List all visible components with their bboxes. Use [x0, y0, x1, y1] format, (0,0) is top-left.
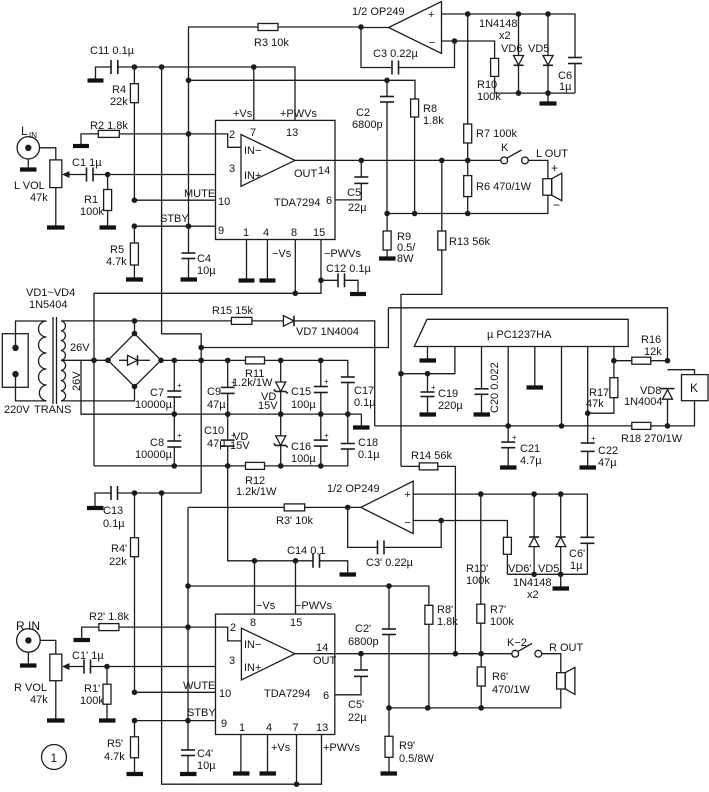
svg-text:1µ: 1µ — [559, 81, 572, 93]
svg-text:1.2k/1W: 1.2k/1W — [232, 377, 273, 389]
capacitor C1 — [72, 157, 102, 182]
svg-text:C20 0.022: C20 0.022 — [489, 362, 501, 413]
IC U1 TDA7294 box — [216, 120, 336, 239]
capacitor C2 — [352, 78, 394, 214]
resistor R1 — [80, 175, 116, 228]
node R3/opamp output — [358, 24, 364, 30]
svg-text:4: 4 — [266, 722, 272, 734]
wire STBY — [132, 213, 216, 229]
speaker R — [557, 667, 575, 694]
resistor R9 — [379, 214, 416, 266]
wire pin7' +Vs — [294, 735, 361, 788]
svg-text:6: 6 — [323, 690, 329, 702]
wire WUTE — [132, 680, 216, 695]
wire + input rail bottom — [413, 491, 587, 537]
svg-text:100k: 100k — [466, 575, 490, 587]
svg-text:0.1µ: 0.1µ — [358, 449, 380, 461]
wire opamp output — [361, 27, 389, 29]
wire +V rail riser x161 — [162, 67, 204, 493]
wire diode bottom rail — [495, 90, 575, 96]
wire switch to speaker R — [542, 642, 584, 673]
zener VD upper 15V — [258, 360, 288, 414]
ground uPC pin A — [420, 347, 437, 361]
svg-text:8W: 8W — [397, 253, 414, 265]
svg-text:C6': C6' — [569, 548, 585, 560]
svg-text:10000µ: 10000µ — [135, 449, 173, 461]
capacitor C13 — [103, 486, 125, 530]
svg-text:STBY: STBY — [187, 707, 216, 719]
svg-text:1/2 OP249: 1/2 OP249 — [352, 6, 405, 18]
ground C13 — [87, 493, 111, 508]
resistor R7' — [477, 494, 515, 654]
capacitor C7 — [135, 360, 182, 414]
IC U3 uPC1237HA — [414, 319, 628, 346]
resistor R5' — [104, 721, 143, 774]
svg-text:L OUT: L OUT — [536, 148, 568, 160]
ground diode rail — [540, 93, 557, 103]
IC U4 TDA7294' box — [216, 614, 337, 734]
wire pin13' +PWVs — [297, 735, 322, 785]
capacitor C16 — [291, 414, 329, 466]
capacitor C2' — [348, 586, 396, 708]
resistor R18 — [621, 401, 695, 445]
node +Vs pin7 — [233, 64, 317, 120]
svg-text:µ PC1237HA: µ PC1237HA — [487, 329, 552, 341]
svg-text:−: − — [429, 37, 435, 49]
svg-text:6800p: 6800p — [348, 636, 379, 648]
svg-text:1: 1 — [243, 227, 249, 239]
svg-text:22k: 22k — [109, 556, 127, 568]
svg-text:R16: R16 — [641, 334, 661, 346]
capacitor C8 — [135, 414, 182, 466]
svg-text:R10': R10' — [466, 563, 488, 575]
svg-text:C21: C21 — [520, 443, 540, 455]
svg-text:C1 1µ: C1 1µ — [72, 157, 102, 169]
svg-text:R14 56k: R14 56k — [411, 450, 452, 462]
bridge rectifier VD1-VD4 — [108, 331, 164, 390]
ground R2' — [74, 627, 99, 640]
svg-text:C16: C16 — [291, 441, 311, 453]
wire pin8 -Vs — [293, 240, 362, 297]
svg-text:7: 7 — [293, 722, 299, 734]
wire pin15 — [295, 240, 324, 294]
capacitor C5' — [335, 654, 368, 724]
svg-text:IN+: IN+ — [244, 662, 261, 674]
svg-text:10µ: 10µ — [197, 760, 216, 772]
svg-text:R13 56k: R13 56k — [449, 236, 490, 248]
svg-text:8: 8 — [291, 227, 297, 239]
svg-text:R6 470/1W: R6 470/1W — [476, 181, 532, 193]
ground C11 — [88, 67, 111, 81]
svg-text:C4': C4' — [197, 748, 213, 760]
svg-text:+Vs: +Vs — [233, 108, 253, 120]
op-amp U2 1/2 OP249 — [352, 2, 442, 54]
wire pinB sense — [398, 347, 455, 377]
svg-text:10: 10 — [218, 196, 230, 208]
ground R IN — [20, 652, 37, 665]
svg-text:7: 7 — [250, 127, 256, 139]
svg-text:TDA7294: TDA7294 — [264, 688, 310, 700]
wire rail x188 — [188, 80, 190, 226]
wire jack to pot — [40, 640, 56, 654]
capacitor C18 — [341, 414, 380, 461]
wire R2' to pin2 — [119, 624, 216, 630]
svg-text:100k: 100k — [80, 206, 104, 218]
op-amp U5 1/2 OP249 — [327, 481, 413, 533]
svg-text:9: 9 — [218, 225, 224, 237]
svg-text:+: + — [428, 9, 434, 21]
svg-text:R2' 1.8k: R2' 1.8k — [89, 611, 130, 623]
resistor R6' — [477, 654, 530, 708]
relay K box — [668, 370, 709, 401]
switch K-2 — [507, 637, 542, 657]
svg-text:VD7 1N4004: VD7 1N4004 — [296, 326, 359, 338]
svg-text:IN+: IN+ — [244, 170, 261, 182]
svg-text:4.7k: 4.7k — [106, 256, 127, 268]
capacitor C5 — [335, 160, 368, 214]
resistor R3' — [276, 504, 361, 527]
svg-text:STBY: STBY — [160, 213, 189, 225]
svg-text:+PWVs: +PWVs — [323, 742, 360, 754]
svg-text:K−2: K−2 — [507, 637, 527, 649]
resistor R7 — [464, 14, 518, 160]
svg-text:4: 4 — [263, 227, 269, 239]
svg-text:15: 15 — [290, 617, 302, 629]
svg-text:−: − — [553, 198, 560, 212]
diode VD7 — [252, 316, 375, 426]
svg-text:10000µ: 10000µ — [135, 399, 173, 411]
svg-text:−PWVs: −PWVs — [295, 600, 332, 612]
wire 0V mid rail — [81, 411, 351, 417]
svg-text:+: + — [324, 431, 329, 440]
svg-text:−PWVs: −PWVs — [324, 248, 361, 260]
svg-text:R4: R4 — [112, 84, 126, 96]
svg-text:4.7µ: 4.7µ — [520, 455, 542, 467]
wire -Vs rail to x94 — [94, 293, 295, 466]
svg-text:x2: x2 — [499, 30, 511, 42]
wire -V rail — [94, 449, 348, 469]
wire STBY' — [132, 707, 217, 723]
svg-text:−: − — [405, 517, 411, 529]
resistor R16 — [614, 334, 670, 364]
svg-text:4.7k: 4.7k — [104, 751, 125, 763]
svg-text:13: 13 — [316, 722, 328, 734]
svg-text:VD1~VD4: VD1~VD4 — [26, 287, 75, 299]
svg-text:15: 15 — [313, 227, 325, 239]
svg-text:220V: 220V — [4, 404, 30, 416]
wire pin8' -Vs — [252, 558, 276, 614]
svg-text:15V: 15V — [230, 440, 250, 452]
capacitor C15 — [291, 360, 329, 414]
wiper arrow R — [62, 663, 84, 670]
svg-text:1µ: 1µ — [570, 560, 583, 572]
resistor R5 — [106, 226, 143, 279]
svg-text:1N5404: 1N5404 — [29, 299, 68, 311]
svg-text:47k: 47k — [586, 398, 604, 410]
svg-text:OUT: OUT — [313, 655, 337, 667]
svg-text:8: 8 — [250, 617, 256, 629]
capacitor C3 — [361, 28, 455, 75]
ground R2 — [73, 134, 98, 146]
svg-text:K: K — [501, 142, 509, 154]
svg-text:R10: R10 — [477, 79, 497, 91]
svg-text:100µ: 100µ — [291, 399, 316, 411]
capacitor C9 — [207, 360, 236, 414]
wire - input bottom — [413, 518, 507, 538]
svg-text:R5': R5' — [107, 738, 123, 750]
wire MUTE — [132, 188, 216, 203]
svg-text:14: 14 — [316, 642, 328, 654]
svg-text:100k: 100k — [490, 616, 514, 628]
wire diode bottom rail R — [507, 572, 587, 578]
wire y80 node line — [186, 78, 415, 100]
svg-text:10µ: 10µ — [197, 265, 216, 277]
svg-text:1N4004: 1N4004 — [624, 396, 663, 408]
speaker L — [543, 161, 562, 212]
svg-text:IN−: IN− — [244, 145, 261, 157]
capacitor C22 — [580, 347, 619, 470]
svg-text:+Vs: +Vs — [271, 742, 291, 754]
svg-text:C4: C4 — [197, 253, 211, 265]
resistor R17 — [586, 347, 618, 414]
wire secondary bottom tap — [61, 387, 135, 401]
capacitor C17 — [341, 377, 376, 414]
wire relay rail — [375, 425, 632, 427]
resistor R3 — [254, 24, 289, 50]
svg-text:15V: 15V — [258, 400, 278, 412]
svg-text:x2: x2 — [527, 589, 539, 601]
capacitor C3' — [348, 507, 442, 569]
capacitor C20 — [474, 347, 502, 415]
svg-text:C5: C5 — [347, 187, 361, 199]
svg-text:L: L — [21, 124, 28, 138]
node rail top — [159, 64, 165, 70]
wire R13 R14 node — [401, 465, 419, 467]
svg-text:R1': R1' — [84, 683, 100, 695]
svg-text:C1' 1µ: C1' 1µ — [72, 650, 104, 662]
svg-text:L VOL: L VOL — [14, 180, 45, 192]
ground pin4' — [260, 735, 291, 774]
svg-text:26V: 26V — [70, 342, 90, 354]
svg-text:C5': C5' — [348, 699, 364, 711]
svg-text:+: + — [177, 381, 182, 390]
diode VD6' — [508, 494, 539, 575]
wire supply to outer loop — [201, 308, 388, 348]
svg-text:R3 10k: R3 10k — [254, 37, 289, 49]
wire center tap to 0V — [81, 360, 174, 414]
capacitor C11 — [90, 45, 135, 74]
svg-text:3: 3 — [229, 163, 235, 175]
svg-text:C8: C8 — [150, 437, 164, 449]
wire OUT line — [335, 158, 501, 164]
wire +V rail — [161, 358, 348, 377]
svg-text:R VOL: R VOL — [14, 682, 47, 694]
svg-text:R IN: R IN — [16, 619, 40, 633]
svg-text:C11 0.1µ: C11 0.1µ — [90, 45, 135, 57]
zener VD lower 15V — [230, 414, 288, 466]
wire switch to speaker — [528, 148, 568, 179]
wire R3' left leg — [185, 507, 191, 720]
svg-text:0.1µ: 0.1µ — [103, 518, 125, 530]
svg-text:VD5: VD5 — [528, 43, 549, 55]
resistor R6 — [464, 160, 532, 213]
wire speaker bottom rail R — [386, 689, 561, 711]
svg-text:6: 6 — [326, 195, 332, 207]
wire jack to pot — [40, 148, 56, 160]
capacitor C19 — [420, 374, 464, 415]
ground pin1' — [233, 735, 250, 774]
resistor R11 — [232, 357, 273, 389]
svg-text:47k: 47k — [30, 694, 48, 706]
diode VD8 — [624, 385, 675, 428]
resistor R2 — [90, 120, 128, 137]
svg-text:−Vs: −Vs — [272, 248, 292, 260]
page marker 1 — [42, 745, 67, 770]
wire + input rail — [442, 11, 576, 57]
svg-text:R6': R6' — [492, 671, 508, 683]
wire OUT' line — [335, 651, 512, 657]
svg-text:+: + — [551, 161, 558, 175]
wiper arrow — [62, 171, 87, 178]
svg-text:C17: C17 — [354, 385, 374, 397]
svg-text:22k: 22k — [110, 96, 128, 108]
wire R3 feedback line — [189, 27, 362, 80]
svg-text:1.8k: 1.8k — [437, 616, 458, 628]
svg-text:R7': R7' — [490, 604, 506, 616]
wire R3' line — [188, 506, 284, 508]
svg-text:+: + — [177, 431, 182, 440]
svg-text:2: 2 — [230, 622, 236, 634]
svg-text:C18: C18 — [358, 437, 378, 449]
svg-text:R2 1.8k: R2 1.8k — [90, 120, 128, 132]
svg-text:+: + — [512, 433, 517, 442]
node R4 top — [132, 64, 138, 70]
svg-text:47k: 47k — [30, 192, 48, 204]
transformer TRANS — [16, 287, 91, 416]
svg-text:1/2 OP249: 1/2 OP249 — [327, 483, 380, 495]
svg-text:220µ: 220µ — [438, 400, 463, 412]
resistor R14 — [411, 450, 455, 654]
wire pinF to relay rail — [559, 347, 565, 429]
resistor R4' — [109, 493, 139, 692]
svg-text:1: 1 — [239, 722, 245, 734]
capacitor C21 — [500, 347, 542, 468]
potentiometer R VOL — [14, 654, 65, 720]
capacitor C10 — [204, 414, 236, 466]
ground L IN — [20, 159, 37, 170]
svg-text:47µ: 47µ — [598, 457, 617, 469]
resistor R8' — [425, 604, 458, 708]
svg-text:1N4148: 1N4148 — [513, 577, 552, 589]
wire y586 node line — [188, 583, 429, 605]
wire C13 node line — [118, 490, 202, 496]
svg-text:C15: C15 — [291, 386, 311, 398]
svg-text:C14 0.1: C14 0.1 — [287, 545, 326, 557]
svg-text:R8': R8' — [437, 604, 453, 616]
svg-text:K: K — [690, 381, 698, 395]
resistor R2' — [89, 611, 130, 631]
svg-text:470/1W: 470/1W — [492, 684, 531, 696]
svg-text:22µ: 22µ — [348, 202, 367, 214]
svg-text:2: 2 — [229, 129, 235, 141]
wire secondary mid tap — [61, 358, 111, 364]
wire outer supply loop — [388, 308, 667, 361]
svg-text:1N4148: 1N4148 — [479, 18, 518, 30]
svg-text:+: + — [591, 434, 596, 443]
svg-text:0.5/8W: 0.5/8W — [399, 753, 434, 765]
svg-text:R7 100k: R7 100k — [476, 128, 517, 140]
ground pin4 — [260, 240, 292, 281]
plug 220V — [2, 334, 30, 416]
wire C1 to pin3 — [93, 172, 216, 178]
svg-text:+: + — [231, 378, 236, 387]
svg-text:C2: C2 — [356, 107, 370, 119]
svg-text:1.8k: 1.8k — [423, 115, 444, 127]
wire R2 to pin2 — [119, 131, 215, 137]
svg-text:+: + — [405, 489, 411, 501]
svg-text:C9: C9 — [207, 386, 221, 398]
diode VD5' — [513, 494, 566, 601]
svg-text:9: 9 — [221, 718, 227, 730]
svg-text:R18 270/1W: R18 270/1W — [621, 433, 683, 445]
svg-text:R1: R1 — [84, 194, 98, 206]
svg-text:R OUT: R OUT — [549, 642, 584, 654]
svg-text:+PWVs: +PWVs — [280, 108, 317, 120]
svg-text:C13: C13 — [103, 505, 123, 517]
resistor R12 — [236, 462, 277, 498]
svg-text:R5: R5 — [110, 244, 124, 256]
svg-text:IN−: IN− — [244, 639, 261, 651]
svg-text:VD6': VD6' — [508, 563, 532, 575]
switch K — [501, 142, 529, 164]
svg-text:C22: C22 — [598, 445, 618, 457]
svg-text:1.2k/1W: 1.2k/1W — [236, 486, 277, 498]
ground 0V rail — [348, 414, 370, 427]
svg-text:100µ: 100µ — [291, 453, 316, 465]
svg-text:−Vs: −Vs — [256, 600, 276, 612]
ground diode rail R — [553, 574, 570, 588]
capacitor C6' — [569, 537, 594, 574]
capacitor C1' — [72, 650, 104, 674]
svg-text:+: + — [431, 383, 436, 392]
svg-text:VD5': VD5' — [538, 563, 562, 575]
resistor R15 — [135, 305, 254, 324]
jack R IN — [16, 619, 40, 652]
diode VD5 — [479, 14, 553, 93]
capacitor C4' — [180, 721, 216, 774]
svg-text:MUTE: MUTE — [184, 188, 215, 200]
wire rail riser x161 bottom — [162, 493, 297, 784]
capacitor C4 — [181, 226, 217, 279]
resistor R10 — [477, 58, 501, 103]
wire +Vs top line — [118, 67, 295, 120]
resistor R1' — [80, 667, 116, 721]
diode VD6 — [501, 14, 524, 93]
svg-text:WUTE: WUTE — [183, 680, 215, 692]
capacitor C6 — [558, 58, 582, 94]
wire secondary top tap — [61, 318, 137, 333]
svg-text:12k: 12k — [644, 346, 662, 358]
capacitor C14 — [287, 545, 356, 575]
resistor R13 — [401, 160, 490, 466]
svg-text:3: 3 — [229, 655, 235, 667]
svg-text:0.1µ: 0.1µ — [354, 397, 376, 409]
svg-text:R3' 10k: R3' 10k — [276, 515, 313, 527]
jack L IN — [17, 124, 39, 159]
svg-text:C2': C2' — [355, 623, 371, 635]
ground uPC pin E — [527, 347, 544, 388]
resistor R4 — [110, 67, 138, 200]
